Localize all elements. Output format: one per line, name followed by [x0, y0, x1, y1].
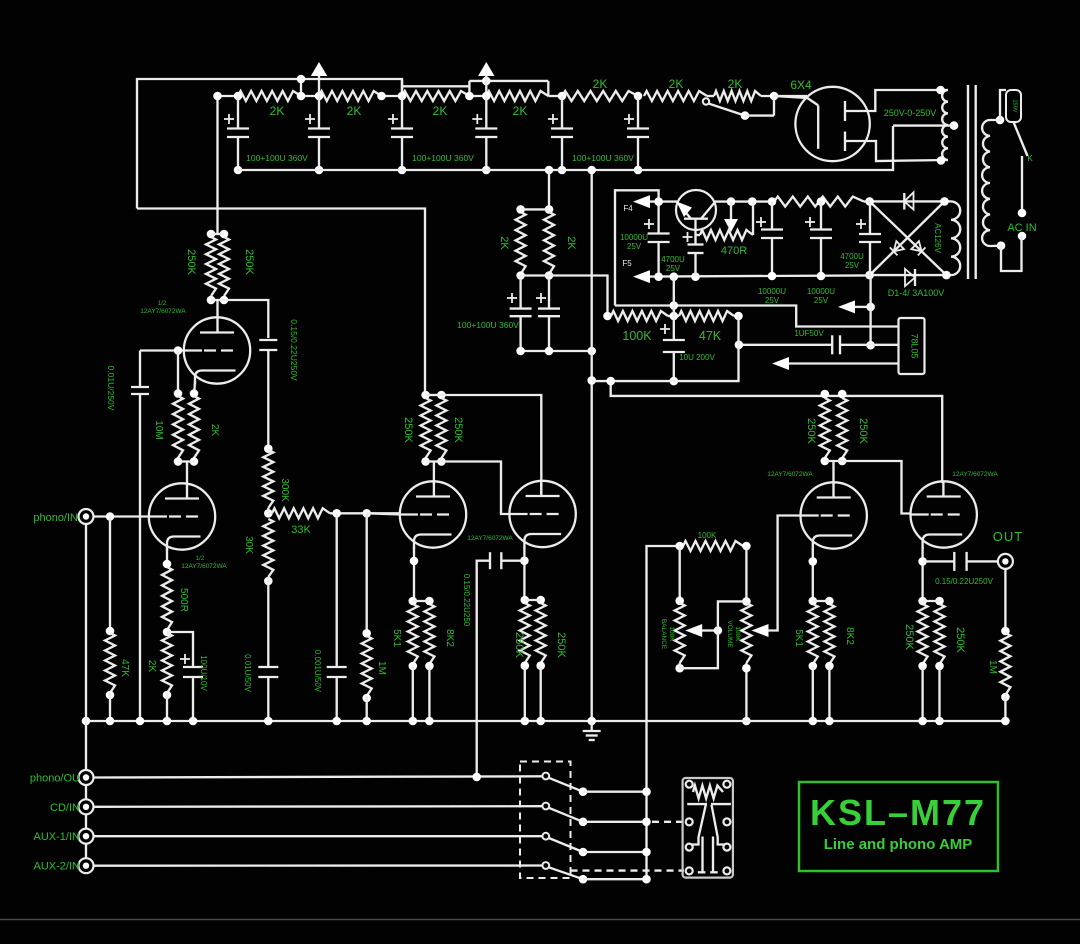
- junction dot 33K node: [264, 509, 273, 518]
- wire 2K pair feed: [516, 170, 553, 214]
- resistor R29 250K: [536, 603, 567, 663]
- wire divider frame: [592, 316, 739, 381]
- svg-text:2K: 2K: [593, 77, 608, 91]
- svg-text:78L05: 78L05: [910, 333, 920, 358]
- junction dots 5K1 8K2 phono top: [409, 597, 434, 606]
- svg-text:10000U: 10000U: [620, 233, 648, 242]
- resistor R31 250K: [837, 398, 869, 458]
- svg-text:100+100U 360V: 100+100U 360V: [572, 153, 634, 163]
- svg-text:100K: 100K: [734, 626, 741, 642]
- svg-text:2K: 2K: [433, 104, 448, 118]
- resistor R1 2K: [238, 91, 301, 118]
- junction dots 2K pair bottom: [516, 271, 553, 280]
- wire 2K chain row segments: [218, 95, 808, 97]
- resistor R27 8K2: [424, 604, 455, 664]
- transformer primary winding: [982, 116, 1005, 250]
- wire grid leak drop: [177, 351, 179, 394]
- svg-text:250K: 250K: [185, 249, 197, 275]
- svg-text:25V: 25V: [845, 261, 860, 270]
- capacitor C11 4700U 25V emitter: [661, 245, 703, 277]
- svg-text:AUX-2/IN: AUX-2/IN: [34, 861, 81, 873]
- arrow F4 feed: [623, 195, 650, 213]
- terminal OUT: [993, 529, 1023, 569]
- svg-text:100+100U 360V: 100+100U 360V: [412, 153, 474, 163]
- svg-text:500R: 500R: [178, 588, 189, 612]
- capacitor C2 100+100U 360V: [305, 96, 330, 174]
- junction dots 5K1 8K2 line top: [809, 597, 834, 606]
- transformer HV secondary winding: [936, 86, 958, 165]
- resistor R37 100K bal-vol bridge: [675, 531, 750, 551]
- label AC126V: [933, 223, 942, 253]
- resistor R34 250K: [903, 604, 928, 664]
- resistor R19 2K cathode: [146, 633, 172, 721]
- svg-text:470R: 470R: [721, 245, 747, 257]
- svg-text:6X4: 6X4: [790, 78, 812, 92]
- svg-text:250K: 250K: [954, 627, 966, 653]
- terminal phono/IN: [33, 509, 93, 524]
- svg-text:OUT: OUT: [993, 529, 1023, 544]
- wire phono B+ drop: [213, 92, 222, 234]
- tube V3 12AY7 follower: [467, 480, 576, 548]
- svg-text:AUX-1/IN: AUX-1/IN: [34, 831, 81, 843]
- label D1-4/ 3A100V: [888, 288, 945, 298]
- diode D1 bridge top: [870, 192, 945, 209]
- capacitor C22 0.001U/50V: [313, 513, 347, 721]
- wire heater top rail: [650, 200, 870, 203]
- switch S1 chain tap: [703, 96, 774, 120]
- wire heater loop rect: [615, 190, 659, 305]
- svg-text:250K: 250K: [555, 632, 567, 658]
- svg-text:250V: 250V: [1012, 100, 1018, 113]
- resistor R21 30K: [243, 508, 273, 667]
- junction dots 250K pair1 top: [207, 230, 229, 239]
- resistor R18 500R: [162, 549, 189, 636]
- svg-text:250K: 250K: [903, 624, 915, 650]
- capacitor C13 10000U 25V b: [805, 202, 835, 305]
- svg-text:4700U: 4700U: [661, 255, 685, 264]
- arrow volume wiper: [752, 624, 769, 637]
- diode D3 bridge diagonal TR-BL: [870, 201, 945, 275]
- fuse F1: [1006, 90, 1021, 122]
- svg-text:8K2: 8K2: [844, 627, 855, 645]
- svg-text:250K: 250K: [452, 417, 464, 443]
- switch S2 mains: [1014, 122, 1034, 240]
- relay K1 muting: [683, 778, 733, 878]
- capacitor C3 100+100U 360V: [388, 96, 413, 174]
- resistor R30 250K: [805, 398, 830, 458]
- wire jog1 B+ top: [402, 81, 469, 96]
- tube U1 6X4 rectifier: [790, 78, 869, 161]
- wire V1b cathode stub: [194, 382, 195, 395]
- relay pins: [686, 781, 731, 875]
- wire V3 plate feed: [441, 395, 541, 494]
- switch selector pole 4: [542, 862, 650, 883]
- resistor R8 surge: [774, 197, 864, 207]
- tube V2 12AY7: [400, 481, 466, 549]
- resistor R17 47K input load: [105, 517, 130, 722]
- svg-text:2K: 2K: [513, 104, 528, 118]
- wire V1a plate lead: [186, 462, 188, 485]
- wire dashed link row2: [652, 821, 684, 823]
- label 100+100U 360V right: [572, 153, 634, 163]
- transistor Q1 pass regulator: [676, 190, 716, 230]
- svg-text:30K: 30K: [243, 536, 254, 554]
- resistor R15 10M: [153, 396, 183, 458]
- svg-text:KSL–M77: KSL–M77: [810, 792, 986, 833]
- wire coupling tap stage1: [224, 300, 268, 338]
- title KSL-M77: [810, 792, 986, 833]
- wire 2K pair to divider: [549, 276, 608, 317]
- svg-text:100+100U 360V: 100+100U 360V: [246, 153, 308, 163]
- wire ground bus: [86, 720, 1005, 722]
- label 250V-0-250V: [884, 108, 937, 118]
- resistor R9 2K dropper: [498, 212, 526, 274]
- tube V1b 12AY7 upper: [140, 301, 250, 385]
- resistor R23 1M: [362, 513, 387, 721]
- wire balance bottom loop: [675, 601, 746, 672]
- svg-text:1/2: 1/2: [196, 556, 205, 562]
- svg-text:2K: 2K: [669, 77, 684, 91]
- wire filter ground rail: [238, 126, 893, 174]
- svg-text:47K: 47K: [119, 659, 130, 677]
- svg-text:12AY7/6072WA: 12AY7/6072WA: [952, 471, 998, 478]
- svg-text:1M: 1M: [987, 660, 998, 674]
- wire AUX-1/IN line: [94, 835, 543, 837]
- svg-text:2K: 2K: [209, 424, 220, 437]
- svg-text:2K: 2K: [347, 104, 362, 118]
- capacitor C21 0.01U/50V: [243, 654, 278, 721]
- junction dots 250K pair4 top: [521, 596, 546, 605]
- resistor R5 2K: [562, 77, 638, 101]
- tube V5 12AY7 line2: [911, 471, 999, 549]
- svg-text:0.15/0.22U250V: 0.15/0.22U250V: [935, 577, 993, 586]
- wire Q1 emitter lead: [683, 219, 696, 245]
- junction dots 250K pair5 top: [918, 597, 944, 606]
- junction dots 10M 2K top: [174, 389, 199, 398]
- wire V1b grid: [140, 346, 185, 355]
- capacitor C9 4700U 25V bridge: [840, 201, 881, 275]
- svg-text:K: K: [1027, 154, 1033, 163]
- wire selector to pots: [647, 546, 680, 879]
- wire V5 cathode node: [918, 547, 927, 601]
- resistor R25 250K: [436, 398, 464, 458]
- svg-text:Line and phono AMP: Line and phono AMP: [824, 836, 973, 853]
- svg-text:2K: 2K: [146, 660, 157, 673]
- wire AUX-2/IN line: [94, 864, 543, 867]
- tube V4 12AY7 line1: [767, 471, 867, 550]
- svg-text:250K: 250K: [513, 632, 525, 658]
- junction dots 5K1 8K2 phono bottom: [409, 662, 434, 721]
- resistor R14 250K: [219, 237, 255, 296]
- svg-text:5K1: 5K1: [793, 629, 804, 647]
- svg-text:0.001U/50V: 0.001U/50V: [313, 650, 322, 693]
- svg-text:phono/OU: phono/OU: [30, 773, 80, 785]
- capacitor C6 100+100U 360V: [624, 96, 649, 174]
- wire riser cap3: [401, 79, 403, 96]
- svg-text:250K: 250K: [402, 417, 414, 443]
- switch selector pole 2: [542, 803, 650, 827]
- wire V2 cathode: [410, 547, 419, 601]
- wire jog2 B+ top: [469, 77, 548, 96]
- arrow B+ up 2: [478, 62, 494, 96]
- svg-text:12AY7/6072WA: 12AY7/6072WA: [467, 535, 513, 542]
- svg-text:F5: F5: [622, 259, 632, 268]
- resistor R24 250K: [402, 398, 431, 458]
- svg-text:F4: F4: [623, 204, 633, 213]
- wire V3 grid feed: [441, 462, 510, 515]
- wire riser R1R2 junction: [300, 79, 302, 96]
- label F5: [622, 259, 632, 268]
- svg-text:2K: 2K: [565, 236, 577, 250]
- resistor R26 5K1: [391, 604, 418, 664]
- svg-text:1/2: 1/2: [158, 301, 167, 307]
- wire heater return rail: [650, 275, 870, 276]
- svg-text:2K: 2K: [728, 77, 743, 91]
- capacitor C16 100+100U 360V b: [536, 276, 560, 352]
- wire cap pair ground: [516, 347, 596, 356]
- resistor R20 300K: [263, 450, 290, 508]
- svg-text:4700U: 4700U: [840, 252, 864, 261]
- svg-text:10000U: 10000U: [807, 287, 835, 296]
- wire balance top: [675, 546, 684, 605]
- potentiometer VR1 470R: [696, 202, 754, 257]
- svg-text:12AY7/6072WA: 12AY7/6072WA: [181, 563, 227, 570]
- arrow off-page heater DC: [838, 300, 875, 313]
- svg-text:10U 200V: 10U 200V: [679, 353, 715, 362]
- wire volume bottom: [742, 663, 751, 725]
- svg-text:47K: 47K: [699, 329, 722, 343]
- junction dots 250K pair1 bottom: [207, 296, 229, 305]
- capacitor C12 10000U 25V a: [756, 202, 786, 305]
- wire 6X4 plate2 to HV bottom: [868, 141, 948, 161]
- capacitor C5 100+100U 360V: [548, 96, 573, 174]
- svg-text:33K: 33K: [291, 524, 311, 536]
- wire primary top to fuse: [990, 90, 1006, 120]
- svg-text:250K: 250K: [805, 418, 817, 444]
- capacitor C1 100+100U 360V: [224, 96, 249, 174]
- resistor R6 2K: [644, 77, 707, 101]
- wire V4 cathode: [809, 548, 818, 601]
- terminal CD/IN: [50, 799, 93, 814]
- svg-text:25V: 25V: [765, 296, 780, 305]
- wire 6X4 plate1 to HV top: [868, 90, 948, 111]
- svg-text:0.15/0.22U250: 0.15/0.22U250: [462, 574, 471, 627]
- svg-text:250K: 250K: [857, 418, 869, 444]
- resistor R4 2K: [486, 91, 548, 118]
- svg-text:AC IN: AC IN: [1007, 222, 1036, 234]
- svg-text:0.01U/50V: 0.01U/50V: [243, 654, 252, 692]
- wire dashed link row4: [571, 869, 685, 871]
- label 100+100U 360V left: [246, 153, 308, 163]
- svg-text:5K1: 5K1: [391, 629, 402, 647]
- junction dots 250K pair5 bottom: [918, 662, 944, 721]
- resistor R7 2K: [714, 77, 761, 101]
- capacitor C20 0.15/0.22U250V a: [259, 319, 299, 453]
- subtitle Line and phono AMP: [824, 836, 973, 853]
- resistor R2 2K: [319, 91, 382, 118]
- terminal AUX-1/IN: [34, 829, 94, 844]
- junction dots 250K pair2 top: [421, 391, 445, 400]
- svg-text:2K: 2K: [270, 104, 285, 118]
- svg-text:250V-0-250V: 250V-0-250V: [884, 108, 937, 118]
- title box: [799, 782, 998, 871]
- svg-text:250K: 250K: [243, 249, 255, 275]
- resistor R36 1M out: [987, 569, 1010, 721]
- svg-text:0.01U/250V: 0.01U/250V: [106, 366, 116, 411]
- svg-text:300K: 300K: [279, 478, 290, 502]
- wire V4 grid: [769, 516, 802, 631]
- svg-text:25V: 25V: [666, 264, 681, 273]
- selector dashed box: [520, 762, 571, 879]
- svg-text:10M: 10M: [153, 420, 164, 439]
- svg-text:100U/10V: 100U/10V: [199, 655, 208, 691]
- wire input shield chain: [85, 524, 87, 859]
- svg-text:AC126V: AC126V: [933, 223, 942, 253]
- svg-text:8K2: 8K2: [444, 629, 455, 647]
- wire CD/IN line: [94, 805, 543, 808]
- bottom separator line: [0, 919, 1080, 921]
- wire V3 cathode node: [520, 547, 529, 602]
- resistor R32 5K1: [793, 604, 818, 664]
- junction dots 250K pair3 bottom: [821, 457, 847, 466]
- transformer LV secondary winding: [945, 201, 961, 275]
- resistor R35 250K: [935, 604, 967, 664]
- wire volume top: [742, 546, 751, 606]
- resistor R12 47K: [674, 311, 739, 343]
- terminal AUX-2/IN: [34, 858, 94, 873]
- wire phono/OU line: [94, 773, 543, 782]
- regulator U2 78L05: [899, 318, 925, 374]
- resistor R16 2K: [189, 396, 220, 458]
- switch selector pole 3: [542, 833, 650, 857]
- capacitor C15 100+100U 360V a: [507, 276, 532, 352]
- arrow balance wiper: [685, 624, 722, 637]
- resistor R10 2K dropper: [544, 212, 577, 274]
- svg-text:D1-4/ 3A100V: D1-4/ 3A100V: [888, 288, 945, 298]
- junction dots 250K pair4 bottom: [521, 661, 546, 721]
- resistor R28 250K: [513, 603, 530, 663]
- capacitor C24 0.15/0.22U250V out: [923, 552, 998, 586]
- wire V2 plate lead: [433, 462, 435, 485]
- junction dots 5K1 8K2 line bottom: [809, 662, 834, 721]
- wire phono input: [94, 512, 150, 521]
- wire V4 plate to V5 grid: [842, 461, 911, 514]
- arrow F5 feed: [633, 270, 650, 283]
- wire heater bottom edge: [615, 301, 899, 326]
- label AC IN: [1007, 222, 1036, 234]
- potentiometer VR2 BALANCE 100K: [660, 603, 685, 663]
- arrow heater reference: [772, 357, 899, 370]
- svg-text:1UF50V: 1UF50V: [794, 329, 824, 338]
- junction dots 2K chain: [234, 75, 779, 101]
- junction dots divider: [603, 312, 743, 321]
- wire loop bottom edge to phono stage-2 feed: [137, 209, 425, 396]
- svg-text:100+100U 360V: 100+100U 360V: [457, 320, 519, 330]
- capacitor C23 0.15/0.22U250V b: [462, 552, 524, 776]
- wire B+ feed loop top-left: [137, 79, 402, 209]
- junction dots 250K pair3 top: [821, 390, 847, 399]
- wire HV center tap: [893, 124, 954, 126]
- wire main vertical drop: [587, 166, 596, 721]
- svg-text:1M: 1M: [376, 661, 387, 675]
- svg-text:100K: 100K: [622, 329, 652, 343]
- tube V1a 12AY7 lower: [149, 483, 228, 570]
- ground symbol: [583, 721, 601, 740]
- arrow B+ up 1: [311, 62, 327, 96]
- diode D4 bridge bottom: [870, 269, 947, 286]
- svg-text:BALANCE: BALANCE: [660, 619, 667, 650]
- wire V1b plate lead: [216, 300, 218, 318]
- capacitor C14 1UF50V: [735, 329, 899, 354]
- resistor R33 8K2: [824, 604, 855, 664]
- diode D2 bridge diagonal TL-BR: [870, 201, 947, 275]
- resistor R13 250K: [185, 237, 216, 296]
- svg-text:100K: 100K: [698, 531, 717, 540]
- potentiometer VR3 VOLUME 100K: [726, 603, 751, 663]
- capacitor C10 10000U 25V: [620, 219, 670, 277]
- switch selector pole 1: [542, 773, 650, 796]
- svg-text:100K: 100K: [668, 626, 675, 642]
- svg-text:phono/IN: phono/IN: [33, 512, 78, 524]
- resistor R11 100K: [608, 311, 674, 343]
- wire V2 grid: [367, 513, 401, 514]
- svg-text:VOLUME: VOLUME: [726, 620, 733, 648]
- wire line B+ rail: [606, 377, 943, 482]
- svg-text:25V: 25V: [814, 296, 829, 305]
- svg-text:12AY7/6072WA: 12AY7/6072WA: [140, 308, 186, 315]
- capacitor C18 0.01U/250V: [106, 351, 149, 722]
- junction dots ground bus: [82, 717, 1010, 726]
- terminal phono/OU: [30, 770, 94, 785]
- svg-text:25V: 25V: [627, 242, 642, 251]
- wire V4 plate lead: [832, 461, 834, 484]
- svg-text:12AY7/6072WA: 12AY7/6072WA: [767, 471, 813, 478]
- capacitor C4 100+100U 360V: [472, 96, 497, 174]
- junction dots bridge corners: [865, 197, 950, 279]
- junction dots 10M 2K bottom: [174, 457, 199, 466]
- label 100+100U 360V pair: [457, 320, 519, 330]
- capacitor C17 10U 200V: [660, 277, 715, 386]
- capacitor C19 100U/10V: [167, 632, 208, 721]
- svg-text:2K: 2K: [498, 236, 510, 250]
- svg-text:CD/IN: CD/IN: [50, 802, 80, 814]
- wire 6X4 input: [774, 96, 807, 98]
- resistor R22 33K: [268, 508, 400, 536]
- svg-text:10000U: 10000U: [758, 287, 786, 296]
- transformer core: [968, 85, 976, 279]
- svg-text:0.15/0.22U250V: 0.15/0.22U250V: [289, 319, 299, 381]
- junction dots heater rails: [654, 197, 825, 281]
- junction dots 250K pair2 bottom: [421, 457, 445, 466]
- wire bridge minus drop: [866, 275, 875, 349]
- wire primary bottom U-loop: [990, 236, 1022, 271]
- resistor R3 2K: [402, 91, 469, 118]
- label 100+100U 360V mid: [412, 153, 474, 163]
